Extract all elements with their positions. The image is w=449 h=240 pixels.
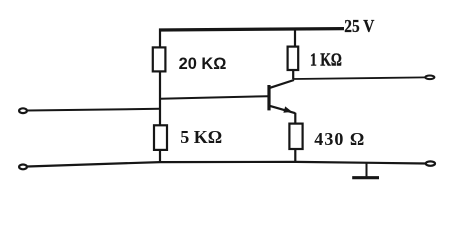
transistor Q1 emitter lead	[270, 106, 296, 113]
resistor R3 body (1 K ohm)	[288, 47, 299, 70]
wire: bottom ground rail	[28, 162, 426, 167]
ground symbol stem	[366, 163, 368, 177]
wire: output lead from collector node to right terminal	[293, 77, 425, 79]
svg-text:20 KΩ: 20 KΩ	[179, 55, 227, 73]
terminal: input return (bottom left)	[19, 165, 27, 170]
svg-text:1 KΩ: 1 KΩ	[310, 49, 342, 69]
terminal: output return (bottom right)	[426, 161, 435, 165]
wire: base lead from divider node to Q1	[160, 96, 268, 99]
wire: R3 bottom to collector node	[292, 70, 294, 80]
wire: rail down to R1 top	[159, 29, 161, 49]
wire: input lead from left terminal to divider node	[28, 109, 161, 111]
svg-text:5 KΩ: 5 KΩ	[180, 127, 222, 147]
wire: R2 bottom to ground rail	[159, 150, 161, 163]
transistor Q1 collector lead	[270, 80, 294, 88]
resistor R4 body (430 ohm)	[289, 124, 302, 149]
terminal: output (right)	[425, 76, 434, 80]
resistor R1 body (20 K ohm)	[153, 47, 166, 71]
wire: +25V top supply rail	[159, 29, 344, 30]
svg-text:25 V: 25 V	[344, 16, 374, 36]
transistor Q1 emitter arrowhead	[283, 106, 292, 112]
wire: R1 bottom to R2 top (node B column)	[159, 71, 161, 126]
transistor Q1 base bar	[267, 85, 270, 110]
resistor R2 body (5 K ohm)	[154, 125, 167, 150]
ground symbol bar	[352, 176, 379, 179]
wire: R4 bottom to ground rail	[294, 149, 296, 163]
wire: emitter down to R4 top	[294, 113, 296, 124]
terminal: input (top left)	[19, 108, 27, 113]
wire: rail down to R3 top	[294, 29, 296, 48]
svg-text:430 Ω: 430 Ω	[314, 129, 364, 149]
